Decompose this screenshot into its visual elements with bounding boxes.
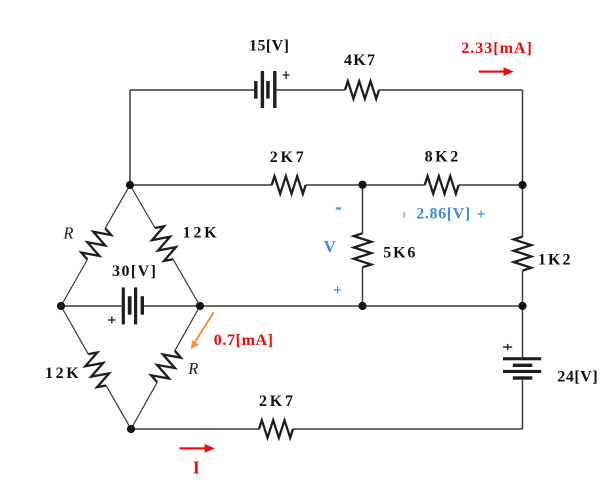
arrow: current I direction at bottom xyxy=(180,444,215,453)
svg-text:4K7: 4K7 xyxy=(344,52,375,69)
svg-text:I: I xyxy=(193,458,200,478)
wire: diamond edge A to resistor R (upper-left) xyxy=(105,185,130,228)
label: + terminal of V1 xyxy=(283,71,290,79)
wire: resistor 1K2 down to node H xyxy=(522,271,524,306)
svg-text:1K2: 1K2 xyxy=(538,251,571,268)
wire: right drop from top rail to node F xyxy=(522,90,524,185)
svg-text:2.86[V]: 2.86[V] xyxy=(416,206,470,223)
node E (middle, top of 5K6) xyxy=(358,181,366,189)
wire: battery V3 down to bottom-right corner xyxy=(522,380,524,429)
svg-text:R: R xyxy=(187,359,198,378)
node D (bottom of bridge) xyxy=(127,425,135,433)
svg-text:24[V]: 24[V] xyxy=(557,368,598,385)
svg-text:+: + xyxy=(476,206,485,223)
resistor R8K2 xyxy=(425,176,459,194)
svg-text:2.33[mA]: 2.33[mA] xyxy=(461,40,532,57)
wire: resistor 12K to node C xyxy=(173,259,200,306)
node C (right of bridge) xyxy=(196,302,204,310)
wire: diamond edge C to resistor R (lower-right) xyxy=(175,306,200,351)
wire: resistor 5K6 down to node G xyxy=(362,267,364,306)
resistor R4K7 xyxy=(345,81,379,99)
svg-text:12K: 12K xyxy=(45,365,79,382)
label: small tick left of 2.86[V] xyxy=(403,212,405,218)
svg-text:V: V xyxy=(324,237,337,256)
wire: bottom rail right segment to resistor 2K7b xyxy=(293,428,523,430)
svg-text:+: + xyxy=(333,282,342,299)
resistor Rb (lower-right diagonal) xyxy=(150,347,183,387)
wire: top-left vertical from node A up xyxy=(129,90,131,185)
wire: battery V2 to node C xyxy=(144,305,200,307)
battery V2 30[V] xyxy=(122,287,144,324)
battery V3 24[V] xyxy=(503,357,541,379)
wire: node H down to battery V3 24[V] xyxy=(522,306,524,357)
svg-text:0.7[mA]: 0.7[mA] xyxy=(214,332,273,349)
node B (left of bridge) xyxy=(57,302,65,310)
svg-text:12K: 12K xyxy=(183,225,218,242)
node G (bottom of 5K6) xyxy=(358,302,366,310)
svg-text:R: R xyxy=(62,223,73,242)
wire: node B to battery V2 30[V] xyxy=(61,305,122,307)
resistor R12Kb (lower-left diagonal) xyxy=(81,350,114,390)
resistor R5K6 xyxy=(354,233,372,267)
wire: node G to node H xyxy=(363,305,523,307)
resistor R2K7a (middle) xyxy=(272,176,306,194)
label: - polarity above 5K6 xyxy=(336,207,341,209)
svg-text:15[V]: 15[V] xyxy=(249,38,289,55)
resistor R12Ka (upper-right diagonal) xyxy=(148,224,181,264)
resistor R2K7b (bottom) xyxy=(259,420,293,438)
wire: middle rail from 8K2 to node F xyxy=(459,184,523,186)
wire: resistor R to node B xyxy=(61,260,87,307)
wire: middle rail from node A to resistor 2K7a xyxy=(130,184,272,186)
label: + terminal of V3 xyxy=(503,344,512,350)
resistor R1K2 xyxy=(514,237,532,271)
resistor R (upper-left diagonal) xyxy=(80,224,113,264)
wire: bottom rail left segment to node D xyxy=(131,428,259,430)
svg-text:5K6: 5K6 xyxy=(383,244,415,261)
wire: resistor R to node D xyxy=(131,382,157,429)
wire: middle rail from node E to resistor 8K2 xyxy=(363,184,425,186)
wire: node F down to resistor 1K2 xyxy=(522,185,524,237)
svg-text:2K7: 2K7 xyxy=(270,149,304,166)
node F (right, top of 1K2) xyxy=(518,181,526,189)
arrow: current direction at top right xyxy=(479,67,514,76)
node A (top of bridge) xyxy=(126,181,134,189)
wire: top rail left segment to battery V1 xyxy=(130,89,255,91)
wire: top rail right segment xyxy=(379,89,523,91)
wire: diamond edge B to resistor 12K (lower-left) xyxy=(61,306,88,354)
svg-text:2K7: 2K7 xyxy=(259,393,293,410)
wire: node C to node G xyxy=(200,305,363,307)
wire: top rail between battery V1 and resistor 4K7 xyxy=(277,89,346,91)
svg-text:8K2: 8K2 xyxy=(425,149,459,166)
wire: node E down to resistor 5K6 xyxy=(362,185,364,234)
wire: resistor 12K to node D xyxy=(106,385,131,429)
label: + terminal of V2 xyxy=(108,317,115,324)
arrow: orange current direction through lower-right R xyxy=(191,312,214,349)
battery V1 15[V] xyxy=(254,71,276,108)
wire: middle rail from 2K7a to node E xyxy=(306,184,363,186)
node H (bottom of 1K2) xyxy=(518,302,526,310)
wire: diamond edge A to resistor 12K (upper-right) xyxy=(130,185,155,228)
